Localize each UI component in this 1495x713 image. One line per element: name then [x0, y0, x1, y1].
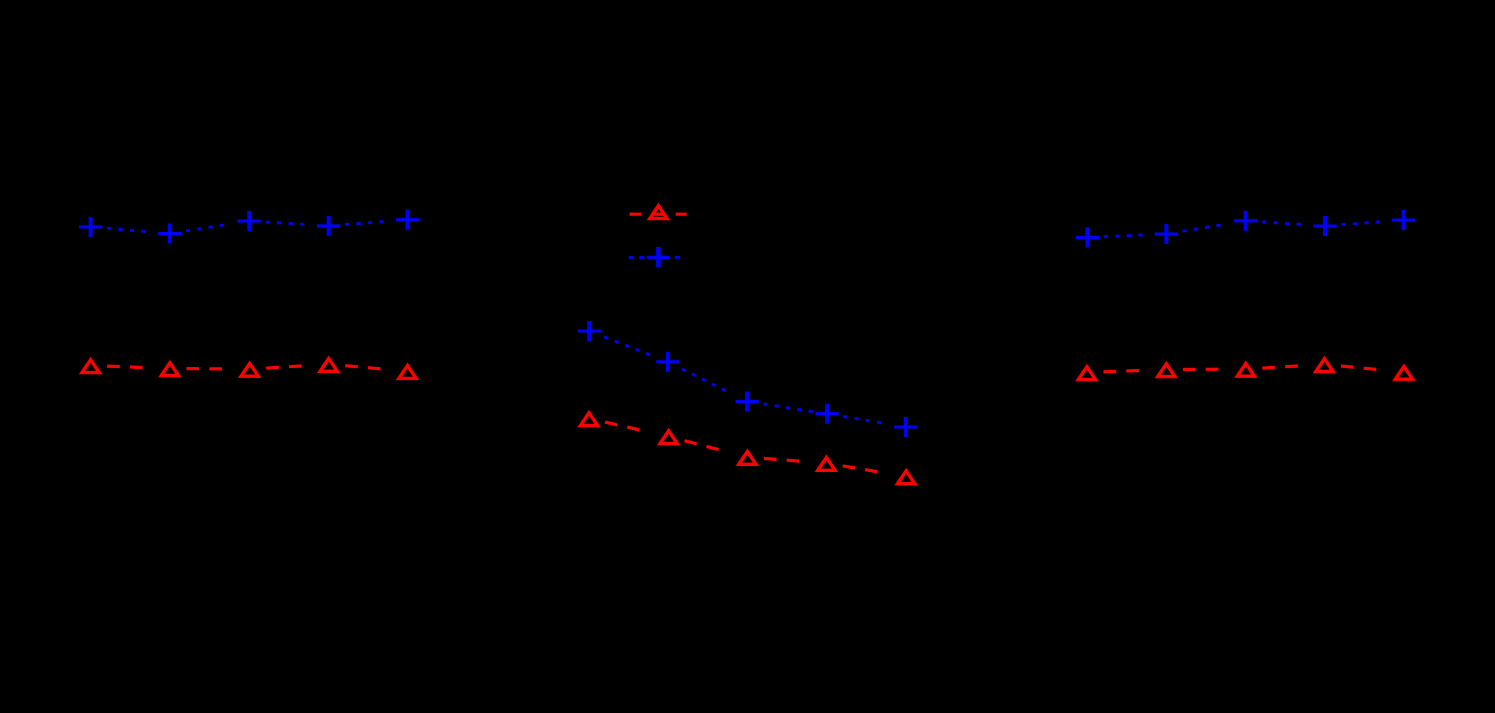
subplot2 red dashed series line [605, 422, 617, 425]
subplot2 red dashed series marker 1 [580, 413, 597, 426]
subplot2 blue dotted series marker 4 [815, 412, 838, 415]
subplot1 red dashed series line [107, 365, 120, 369]
subplot3 red dashed series marker 1 [1078, 367, 1095, 380]
subplot1 red dashed series marker 4 [320, 359, 337, 372]
subplot3 blue dotted series line [1104, 235, 1108, 238]
legend red triangle marker [650, 206, 667, 219]
legend blue plus marker [647, 256, 670, 259]
subplot2 blue dotted series marker 3 [736, 400, 759, 403]
subplot3 red dashed series marker 4 [1316, 359, 1333, 372]
subplot3 red dashed series marker 2 [1158, 364, 1175, 377]
subplot3 blue dotted series marker 3 [1234, 219, 1257, 222]
subplot1 red dashed series marker 2 [161, 363, 178, 376]
subplot2 red dashed series marker 3 [739, 452, 756, 465]
subplot1 red dashed series marker 3 [241, 363, 258, 376]
subplot3 blue dotted series marker 1 [1076, 236, 1099, 239]
subplot1 blue dotted series marker 1 [79, 225, 102, 228]
subplot3 red dashed series marker 3 [1237, 363, 1254, 376]
legend red line dash visible through triangle hole [653, 213, 664, 216]
subplot1 red dashed series marker 5 [399, 366, 416, 379]
subplot1 blue dotted series marker 3 [238, 219, 261, 222]
subplot2 blue dotted series line [604, 337, 608, 339]
subplot1 blue dotted series marker 2 [158, 232, 181, 235]
subplot3 blue dotted series marker 4 [1313, 224, 1336, 227]
subplot1 blue dotted series marker 4 [317, 224, 340, 227]
subplot1 blue dotted series line [107, 227, 111, 230]
subplot3 red dashed series line [1103, 370, 1116, 374]
subplot2 blue dotted series marker 5 [894, 425, 917, 428]
subplot3 blue dotted series marker 2 [1155, 232, 1178, 235]
subplot2 red dashed series marker 4 [818, 458, 835, 471]
subplot1 red dashed series marker 1 [82, 360, 99, 373]
legend blue dotted sample line [629, 256, 680, 259]
legend red dashed sample line (left + right dash) [630, 213, 687, 216]
subplot2 blue dotted series marker 2 [656, 360, 679, 363]
subplot2 red dashed series marker 2 [660, 431, 677, 444]
subplot2 blue dotted series marker 1 [578, 329, 601, 332]
subplot3 red dashed series marker 5 [1395, 366, 1412, 379]
subplot1 blue dotted series marker 5 [396, 218, 419, 221]
subplot3 blue dotted series marker 5 [1392, 218, 1415, 221]
subplot2 red dashed series marker 5 [898, 471, 915, 484]
